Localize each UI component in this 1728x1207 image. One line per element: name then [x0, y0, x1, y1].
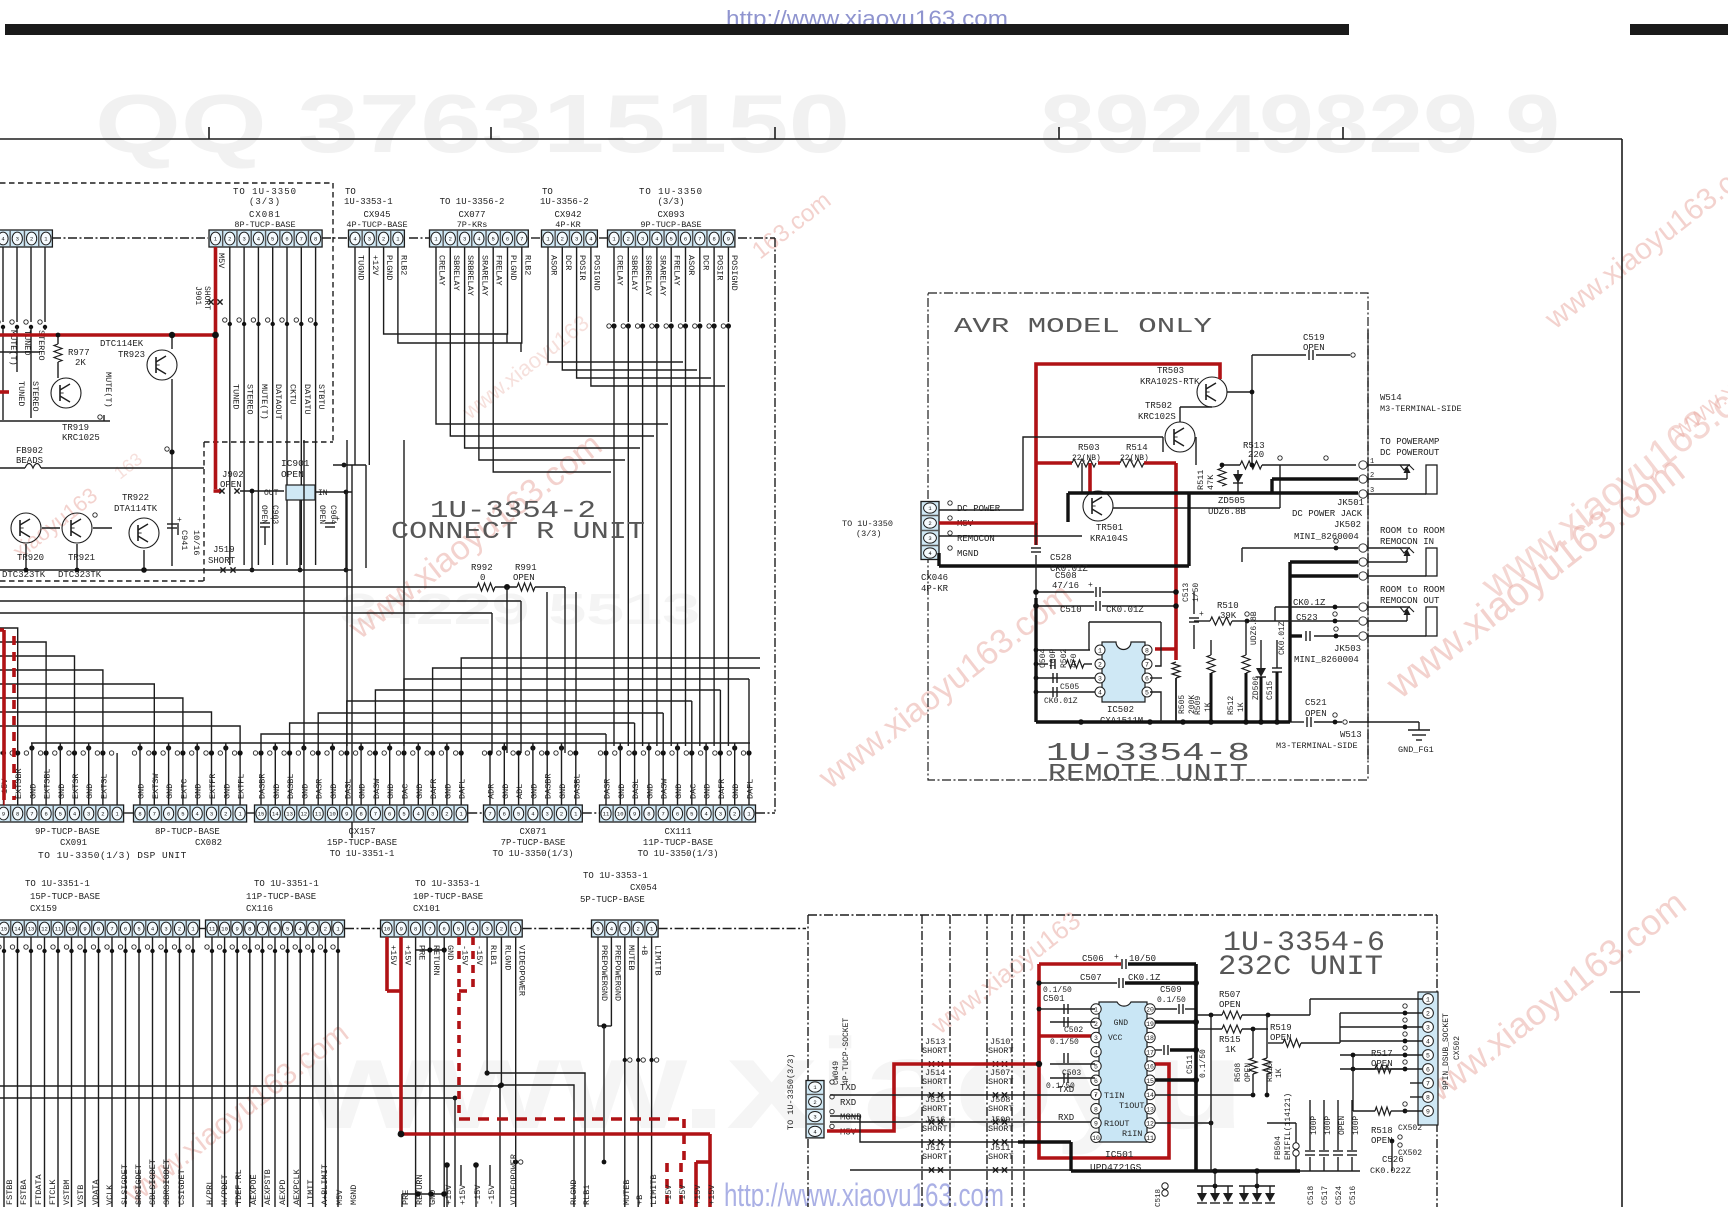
- svg-text:R505: R505: [1178, 695, 1187, 714]
- svg-text:13: 13: [28, 926, 35, 933]
- svg-text:SHORT: SHORT: [988, 1124, 1014, 1134]
- svg-text:CX157: CX157: [348, 827, 375, 837]
- svg-text:CK0.01Z: CK0.01Z: [1278, 621, 1287, 655]
- svg-text:VSTBM: VSTBM: [62, 1179, 72, 1205]
- svg-text:3: 3: [928, 535, 931, 542]
- svg-text:11P-TUCP-BASE: 11P-TUCP-BASE: [246, 892, 316, 902]
- svg-text:AEXPD: AEXPD: [278, 1179, 288, 1205]
- svg-text:C504: C504: [1039, 649, 1048, 668]
- svg-text:C521: C521: [1305, 698, 1327, 708]
- svg-text:7: 7: [488, 811, 491, 818]
- svg-text:0: 0: [480, 573, 485, 583]
- svg-text:3: 3: [368, 236, 371, 243]
- svg-text:14: 14: [272, 811, 279, 818]
- svg-text:REMOTE UNIT: REMOTE UNIT: [1048, 761, 1248, 788]
- svg-text:7: 7: [110, 926, 113, 933]
- transistor TR501 KRA104S: [1083, 491, 1113, 521]
- svg-text:6: 6: [443, 926, 446, 933]
- svg-text:M5V: M5V: [216, 253, 226, 269]
- svg-text:9: 9: [400, 926, 403, 933]
- svg-text:18: 18: [1146, 1035, 1154, 1042]
- svg-text:TO 1U-3350(1/3): TO 1U-3350(1/3): [637, 849, 718, 859]
- svg-text:TR923: TR923: [118, 350, 145, 360]
- svg-text:GND: GND: [445, 945, 455, 960]
- svg-text:+15V: +15V: [693, 1184, 703, 1205]
- svg-text:15P-TUCP-BASE: 15P-TUCP-BASE: [30, 892, 100, 902]
- svg-text:TR919: TR919: [62, 423, 89, 433]
- svg-text:8: 8: [712, 236, 715, 243]
- red power routing bottom: [401, 1132, 710, 1136]
- svg-text:LIMITB: LIMITB: [649, 1174, 659, 1205]
- svg-text:SLSIGDET: SLSIGDET: [120, 1164, 130, 1205]
- svg-text:SRARELAY: SRARELAY: [479, 255, 489, 296]
- svg-text:RETURN: RETURN: [415, 1174, 425, 1205]
- svg-text:2: 2: [449, 236, 452, 243]
- svg-text:(3/3): (3/3): [856, 529, 882, 539]
- svg-text:6: 6: [676, 811, 679, 818]
- svg-text:ZD505: ZD505: [1218, 496, 1245, 506]
- svg-text:DASW: DASW: [660, 778, 670, 799]
- transistor TR919 KRC1025: [51, 378, 81, 408]
- svg-text:JK501: JK501: [1337, 498, 1364, 508]
- 232C unit dash-dot box: [1024, 914, 1437, 916]
- svg-text:-15V: -15V: [487, 1184, 497, 1205]
- svg-text:1K: 1K: [1225, 1045, 1236, 1055]
- svg-text:TR502: TR502: [1145, 401, 1172, 411]
- svg-text:R507: R507: [1219, 990, 1241, 1000]
- caps C518 C517 C524 C516: [1309, 1100, 1311, 1150]
- svg-text:4P-TUCP-BASE: 4P-TUCP-BASE: [346, 220, 407, 230]
- svg-text:TO 1U-3353-1: TO 1U-3353-1: [583, 871, 648, 881]
- svg-text:DATATU: DATATU: [302, 384, 312, 415]
- transistor TR922 DTA114TK: [129, 518, 159, 548]
- svg-text:C517: C517: [1321, 1186, 1330, 1205]
- svg-text:ROOM to ROOM: ROOM to ROOM: [1380, 526, 1445, 536]
- svg-text:C508: C508: [1055, 571, 1077, 581]
- svg-text:+: +: [1114, 953, 1119, 962]
- svg-text:11: 11: [603, 811, 610, 818]
- svg-text:TO 1U-3351-1: TO 1U-3351-1: [25, 879, 90, 889]
- svg-text:OUT: OUT: [264, 489, 279, 498]
- svg-text:8: 8: [414, 926, 417, 933]
- wires remote unit thin: [939, 437, 1163, 510]
- beads bottom: [1162, 1183, 1168, 1189]
- frame tick marks: [208, 127, 210, 139]
- CX159 long wires to bottom: [3, 937, 5, 1207]
- svg-text:GND: GND: [703, 784, 713, 799]
- svg-text:10: 10: [1092, 1135, 1100, 1142]
- svg-text:EXTFR: EXTFR: [208, 773, 218, 799]
- svg-text:3: 3: [623, 926, 626, 933]
- svg-text:FSTBA: FSTBA: [19, 1179, 29, 1205]
- svg-text:CX077: CX077: [458, 210, 485, 220]
- svg-text:2: 2: [101, 811, 104, 818]
- svg-text:J901: J901: [193, 286, 202, 305]
- svg-text:8: 8: [314, 236, 317, 243]
- svg-text:C509: C509: [1160, 985, 1182, 995]
- svg-text:7P-KRs: 7P-KRs: [457, 220, 488, 230]
- svg-text:GND: GND: [272, 784, 282, 799]
- svg-text:JK503: JK503: [1334, 644, 1361, 654]
- resistor R977 2K: [54, 344, 62, 362]
- svg-text:SBLSIGDET: SBLSIGDET: [148, 1159, 158, 1205]
- svg-text:MUTE(T): MUTE(T): [103, 372, 113, 408]
- svg-text:MINI_8260004: MINI_8260004: [1294, 655, 1359, 665]
- jumper column boxes: [921, 915, 923, 1207]
- svg-text:R992: R992: [471, 563, 493, 573]
- svg-text:9P-TUCP-BASE: 9P-TUCP-BASE: [640, 220, 701, 230]
- svg-text:9P-TUCP-BASE: 9P-TUCP-BASE: [35, 827, 100, 837]
- svg-text:TO 1U-3350(1/3): TO 1U-3350(1/3): [492, 849, 573, 859]
- svg-text:15: 15: [258, 811, 265, 818]
- svg-text:SHORT: SHORT: [922, 1077, 948, 1087]
- svg-text:CSIGDET: CSIGDET: [177, 1169, 187, 1205]
- left fan wires to CX091/CX082: [0, 628, 18, 753]
- svg-text:13: 13: [1146, 1106, 1154, 1113]
- svg-text:TDEF.RL: TDEF.RL: [234, 1169, 244, 1205]
- svg-text:C511: C511: [1186, 1055, 1195, 1074]
- red box around IC501: [1039, 964, 1169, 1158]
- connector CX081 8P-TUCP-BASE: [209, 230, 322, 247]
- svg-text:T1OUT: T1OUT: [1119, 1101, 1145, 1111]
- svg-text:R517: R517: [1371, 1049, 1393, 1059]
- svg-text:C513: C513: [1182, 583, 1191, 602]
- svg-text:FB902: FB902: [16, 446, 43, 456]
- svg-text:FB504: FB504: [1274, 1136, 1283, 1160]
- svg-text:SHORT: SHORT: [988, 1077, 1014, 1087]
- svg-text:7P-TUCP-BASE: 7P-TUCP-BASE: [501, 838, 566, 848]
- svg-text:+15V: +15V: [707, 1184, 717, 1205]
- dash-dot M3 boundary: [1367, 330, 1369, 760]
- svg-text:ASOR: ASOR: [686, 255, 696, 275]
- connector CX077 7P-KRs: [430, 230, 529, 247]
- svg-text:DTC114EK: DTC114EK: [100, 339, 144, 349]
- svg-text:C519: C519: [1303, 333, 1325, 343]
- svg-text:C524: C524: [1335, 1186, 1344, 1205]
- svg-text:POSIR: POSIR: [577, 255, 587, 281]
- svg-text:2K: 2K: [75, 358, 86, 368]
- svg-text:SHORT: SHORT: [988, 1046, 1014, 1056]
- svg-text:MUTEB: MUTEB: [622, 1179, 632, 1205]
- svg-text:GND: GND: [85, 784, 95, 799]
- svg-text:CX046: CX046: [921, 573, 948, 583]
- svg-text:0.1/50: 0.1/50: [1050, 1038, 1079, 1047]
- connector CX502 9PIN DSUB: [1418, 992, 1438, 1125]
- svg-text:C518: C518: [1155, 1189, 1163, 1207]
- svg-text:9: 9: [633, 811, 636, 818]
- svg-text:(3/3): (3/3): [249, 197, 281, 207]
- svg-text:RLB2: RLB2: [522, 255, 532, 275]
- GND rail y743: [31, 742, 750, 744]
- svg-text:FRELAY: FRELAY: [672, 255, 682, 286]
- svg-text:STEREO: STEREO: [30, 381, 40, 412]
- svg-text:SHORT: SHORT: [208, 556, 236, 566]
- resistor R511 47K (vert): [1218, 468, 1226, 486]
- svg-text:+15V: +15V: [458, 1184, 468, 1205]
- transistor TR503 KRA102S-RTK: [1197, 377, 1227, 407]
- svg-text:LIMIT: LIMIT: [306, 1179, 316, 1205]
- svg-text:CX111: CX111: [664, 827, 691, 837]
- svg-text:+B: +B: [639, 945, 649, 955]
- svg-text:CX091: CX091: [60, 838, 87, 848]
- svg-text:R510: R510: [1217, 601, 1239, 611]
- transistor TR921: [62, 513, 92, 543]
- svg-text:DASBL: DASBL: [572, 773, 582, 799]
- svg-text:20: 20: [1146, 1007, 1154, 1014]
- capacitor C903 OPEN: [260, 522, 270, 524]
- svg-text:22(NB): 22(NB): [1120, 454, 1149, 463]
- svg-text:GND: GND: [28, 784, 38, 799]
- svg-text:TR503: TR503: [1157, 366, 1184, 376]
- svg-text:4: 4: [1426, 1039, 1430, 1046]
- svg-text:CX071: CX071: [519, 827, 546, 837]
- svg-text:CX502: CX502: [1453, 1036, 1462, 1060]
- svg-text:0.1/50: 0.1/50: [1199, 1049, 1208, 1078]
- svg-text:GND: GND: [731, 784, 741, 799]
- svg-text:TR501: TR501: [1096, 523, 1123, 533]
- svg-text:TXD: TXD: [840, 1083, 856, 1093]
- connector CX945 4P-TUCP-BASE: [349, 230, 405, 247]
- transistor TR920: [11, 513, 41, 543]
- svg-text:6: 6: [273, 926, 276, 933]
- svg-text:9: 9: [1094, 1121, 1098, 1128]
- long verticals to CX157: [303, 440, 305, 746]
- connector CX111 11P-TUCP-BASE: [600, 805, 756, 822]
- svg-text:J902: J902: [222, 470, 244, 480]
- svg-text:R511: R511: [1196, 470, 1206, 490]
- svg-text:12: 12: [41, 926, 48, 933]
- svg-text:7: 7: [30, 811, 33, 818]
- svg-text:PREPOWERGND: PREPOWERGND: [599, 945, 609, 1001]
- svg-text:EXTSR: EXTSR: [71, 773, 81, 799]
- svg-text:UDZ6.8B: UDZ6.8B: [1250, 611, 1259, 645]
- svg-text:9: 9: [2, 811, 5, 818]
- svg-text:5: 5: [271, 236, 274, 243]
- svg-text:7: 7: [520, 236, 523, 243]
- svg-text:2: 2: [382, 236, 385, 243]
- svg-text:5P-TUCP-BASE: 5P-TUCP-BASE: [580, 895, 645, 905]
- svg-text:10: 10: [68, 926, 75, 933]
- svg-text:TO 1U-3350: TO 1U-3350: [842, 519, 893, 529]
- svg-text:R509: R509: [1194, 696, 1203, 715]
- svg-text:6: 6: [388, 811, 391, 818]
- svg-text:R515: R515: [1219, 1035, 1241, 1045]
- frame right vertical: [1621, 139, 1623, 1207]
- svg-text:14: 14: [14, 926, 21, 933]
- svg-text:9PIN_DSUB_SOCKET: 9PIN_DSUB_SOCKET: [1442, 1013, 1451, 1090]
- svg-text:M3-TERMINAL-SIDE: M3-TERMINAL-SIDE: [1276, 741, 1358, 751]
- svg-text:RETURN: RETURN: [431, 945, 441, 976]
- svg-text:5: 5: [457, 926, 460, 933]
- svg-text:GND: GND: [617, 784, 627, 799]
- svg-text:SBRSIGDET: SBRSIGDET: [162, 1159, 172, 1205]
- svg-text:DASL: DASL: [343, 779, 353, 799]
- svg-text:5: 5: [670, 236, 673, 243]
- svg-text:OPEN: OPEN: [513, 573, 535, 583]
- svg-text:2: 2: [560, 811, 563, 818]
- svg-text:IC502: IC502: [1107, 705, 1134, 715]
- svg-text:7: 7: [261, 926, 264, 933]
- svg-text:GND: GND: [529, 784, 539, 799]
- svg-text:5: 5: [137, 926, 140, 933]
- cluster wires: [0, 351, 40, 353]
- svg-text:SBRELAY: SBRELAY: [451, 255, 461, 291]
- svg-text:VCC: VCC: [1108, 1034, 1123, 1043]
- svg-text:DAFR: DAFR: [429, 779, 439, 799]
- svg-text:3: 3: [485, 926, 488, 933]
- svg-text:2: 2: [733, 811, 736, 818]
- svg-text:POSIGND: POSIGND: [729, 255, 739, 291]
- svg-text:DASL: DASL: [631, 779, 641, 799]
- svg-text:CX159: CX159: [30, 904, 57, 914]
- resistor R503 22(NB): [1072, 459, 1096, 467]
- svg-text:2: 2: [1098, 662, 1102, 669]
- svg-text:M3-TERMINAL-SIDE: M3-TERMINAL-SIDE: [1380, 404, 1462, 414]
- svg-text:CX081: CX081: [249, 210, 281, 220]
- svg-text:TR922: TR922: [122, 493, 149, 503]
- svg-text:RXD: RXD: [840, 1098, 856, 1108]
- svg-text:TO: TO: [542, 187, 553, 197]
- svg-text:GND: GND: [57, 784, 67, 799]
- svg-text:5: 5: [517, 811, 520, 818]
- svg-text:3: 3: [164, 926, 167, 933]
- svg-text:C515: C515: [1266, 681, 1275, 700]
- svg-text:+B: +B: [635, 1195, 645, 1205]
- svg-text:7: 7: [1145, 662, 1149, 669]
- svg-text:RLGND: RLGND: [502, 945, 512, 971]
- svg-text:9: 9: [236, 926, 239, 933]
- svg-text:89249829 9: 89249829 9: [1040, 77, 1560, 170]
- wires + labels partial connector: [2, 247, 4, 322]
- connector CX101 10P-TUCP-BASE: [381, 920, 523, 937]
- svg-text:6: 6: [167, 811, 170, 818]
- svg-text:AEXPSTB: AEXPSTB: [263, 1169, 273, 1205]
- svg-text:AEXPCLK: AEXPCLK: [292, 1168, 302, 1205]
- svg-text:R502: R502: [1060, 649, 1069, 668]
- svg-text:C941: C941: [179, 530, 189, 550]
- svg-text:7: 7: [1094, 1092, 1098, 1099]
- svg-text:GND: GND: [222, 784, 232, 799]
- svg-text:5: 5: [596, 926, 599, 933]
- row3 dash-dot links: [200, 928, 205, 930]
- svg-text:OPEN: OPEN: [281, 469, 304, 480]
- svg-text:7: 7: [374, 811, 377, 818]
- svg-text:11: 11: [1146, 1135, 1154, 1142]
- svg-text:2: 2: [324, 926, 327, 933]
- svg-text:+: +: [177, 516, 182, 525]
- svg-text:KRC102S: KRC102S: [1138, 412, 1176, 422]
- svg-text:3: 3: [242, 236, 245, 243]
- pin17 cap C509: [1155, 1049, 1162, 1051]
- svg-text:10: 10: [221, 926, 228, 933]
- svg-text:CRELAY: CRELAY: [437, 255, 447, 286]
- svg-text:10/16: 10/16: [191, 530, 201, 556]
- svg-text:9: 9: [1426, 1109, 1430, 1116]
- GND pin19 thick: [1155, 1020, 1196, 1023]
- svg-text:GND: GND: [415, 784, 425, 799]
- svg-text:TO POWERAMP: TO POWERAMP: [1380, 437, 1439, 447]
- svg-text:2: 2: [178, 926, 181, 933]
- svg-text:DC POWER: DC POWER: [957, 504, 1001, 514]
- svg-text:OPEN: OPEN: [1305, 709, 1327, 719]
- svg-text:4P-KR: 4P-KR: [921, 584, 949, 594]
- connector CX046 4P-KR: [921, 502, 939, 560]
- svg-text:http://www.xiaoyu163.com: http://www.xiaoyu163.com: [724, 1177, 1004, 1207]
- svg-text:GND: GND: [386, 784, 396, 799]
- svg-text:TUGND: TUGND: [356, 255, 366, 281]
- svg-text:CX945: CX945: [363, 210, 390, 220]
- svg-text:H/PRL: H/PRL: [205, 1179, 215, 1205]
- svg-text:5: 5: [286, 926, 289, 933]
- svg-text:SHORT: SHORT: [922, 1152, 948, 1162]
- dash-dot separator vertical x775: [774, 238, 776, 813]
- svg-text:3: 3: [87, 811, 90, 818]
- svg-text:C516: C516: [1349, 1186, 1358, 1205]
- svg-text:100P: 100P: [1324, 1116, 1333, 1135]
- svg-text:A+BLIMIT: A+BLIMIT: [320, 1164, 330, 1205]
- capacitor C941 10/16: [167, 523, 177, 525]
- svg-text:3: 3: [1098, 676, 1102, 683]
- svg-text:SRSIGDET: SRSIGDET: [134, 1164, 144, 1205]
- svg-text:FRELAY: FRELAY: [494, 255, 504, 286]
- svg-text:DAC: DAC: [688, 784, 698, 799]
- svg-text:5: 5: [1145, 690, 1149, 697]
- svg-text:VSTB: VSTB: [76, 1185, 86, 1205]
- svg-text:1: 1: [1094, 1007, 1098, 1014]
- svg-text:SRBRELAY: SRBRELAY: [465, 255, 475, 296]
- svg-text:2: 2: [1426, 1011, 1430, 1018]
- svg-text:IN: IN: [318, 489, 328, 498]
- svg-text:3: 3: [719, 811, 722, 818]
- svg-text:TO 1U-3353-1: TO 1U-3353-1: [415, 879, 480, 889]
- svg-text:JK502: JK502: [1334, 520, 1361, 530]
- svg-text:SRBRELAY: SRBRELAY: [643, 255, 653, 296]
- svg-text:2: 2: [813, 1099, 816, 1106]
- svg-text:-15V: -15V: [664, 1184, 674, 1205]
- connector CX082 8P-TUCP-BASE: [134, 805, 247, 822]
- svg-text:DASW: DASW: [372, 778, 382, 799]
- svg-text:OPEN: OPEN: [220, 480, 242, 490]
- svg-text:GND: GND: [558, 784, 568, 799]
- connector CX116 11P-TUCP-BASE: [206, 920, 345, 937]
- CX101 wires: [385, 937, 389, 991]
- svg-text:W513: W513: [1340, 730, 1362, 740]
- svg-text:10: 10: [384, 926, 391, 933]
- svg-text:IC501: IC501: [1105, 1149, 1134, 1160]
- svg-text:3: 3: [575, 236, 578, 243]
- svg-text:CX502: CX502: [1398, 1124, 1422, 1133]
- svg-text:RLB1: RLB1: [488, 945, 498, 965]
- svg-text:GND: GND: [329, 784, 339, 799]
- svg-text:R977: R977: [68, 348, 90, 358]
- diodes bottom: [1197, 1193, 1207, 1202]
- svg-text:SHORT: SHORT: [922, 1104, 948, 1114]
- svg-text:VDATA: VDATA: [91, 1179, 101, 1205]
- svg-text:DTA114TK: DTA114TK: [114, 504, 158, 514]
- svg-text:11P-TUCP-BASE: 11P-TUCP-BASE: [643, 838, 713, 848]
- svg-text:3: 3: [431, 811, 434, 818]
- top black bar left: [5, 24, 1349, 35]
- svg-text:PREPOWERGND: PREPOWERGND: [612, 945, 622, 1001]
- svg-text:C501: C501: [1043, 994, 1065, 1004]
- svg-text:CX101: CX101: [413, 904, 440, 914]
- svg-text:SHORT: SHORT: [922, 1046, 948, 1056]
- svg-text:CX502: CX502: [1398, 1149, 1422, 1158]
- svg-text:CK0.01Z: CK0.01Z: [1044, 697, 1078, 706]
- dashed box CONNECT R UNIT: [0, 182, 333, 184]
- svg-text:DTC323TK: DTC323TK: [2, 570, 46, 580]
- svg-text:ADL: ADL: [515, 784, 525, 799]
